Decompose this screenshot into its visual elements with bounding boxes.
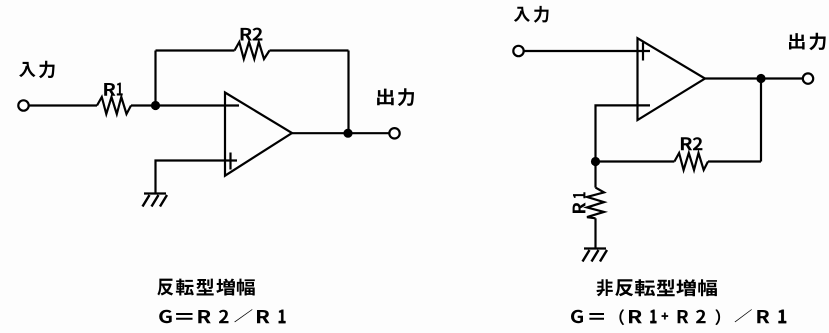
node B (output junction) bbox=[343, 129, 352, 138]
wire: op-amp inverting input stub to corner bbox=[596, 105, 651, 161]
label 入力 (left input) bbox=[19, 61, 54, 79]
input terminal (right, open circle) bbox=[513, 46, 523, 56]
wire: node D down to R2 bbox=[760, 79, 762, 162]
caption 反転型増幅 bbox=[157, 279, 254, 296]
wire: node D to output terminal bbox=[761, 77, 803, 79]
node D (output junction) bbox=[756, 74, 765, 83]
op-amp U2 non-inverting input + mark (vertical dash) bbox=[642, 43, 644, 61]
label 出力 (right output) bbox=[789, 33, 826, 51]
caption 非反転型増幅 bbox=[596, 279, 716, 296]
wire: node C down to R1 bbox=[594, 162, 596, 188]
resistor R1 (right, vertical) bbox=[587, 188, 604, 219]
label R2 bbox=[241, 28, 263, 41]
label R2 (right) bbox=[681, 137, 703, 150]
output terminal (right, open circle) bbox=[803, 73, 813, 83]
output terminal (left, open circle) bbox=[389, 128, 399, 138]
node C (feedback junction) bbox=[591, 157, 600, 166]
resistor R2 (feedback) bbox=[235, 42, 270, 59]
ground symbol (left) bbox=[143, 194, 168, 207]
wire: feedback top, right segment bbox=[270, 49, 349, 51]
node A (inverting input junction) bbox=[151, 101, 160, 110]
wire: op-amp output to node D bbox=[705, 77, 761, 79]
op-amp U1 (left) bbox=[225, 93, 292, 176]
ground symbol (right) bbox=[583, 249, 608, 262]
label R1 bbox=[104, 83, 123, 96]
wire: input terminal to op-amp non-inverting input (+ stub inside) bbox=[525, 50, 651, 52]
wire: R1 to node A bbox=[131, 104, 156, 106]
wire: R2 to output vertical bbox=[708, 160, 761, 162]
label 入力 (right input) bbox=[514, 6, 549, 23]
wire: node B to output terminal bbox=[348, 132, 389, 134]
wire: non-inverting input to ground corner bbox=[156, 161, 238, 194]
wire: R1 to ground bbox=[594, 218, 596, 248]
wire: op-amp output to node B bbox=[292, 132, 348, 134]
wire: node A to op-amp inverting input (− stub inside) bbox=[156, 104, 240, 106]
op-amp U2 (right) bbox=[638, 38, 706, 120]
wire: feedback top, left segment bbox=[156, 49, 235, 51]
wire: input terminal to R1 bbox=[30, 104, 98, 106]
wire: node C to R2 bbox=[596, 160, 675, 162]
resistor R2 (right) bbox=[674, 153, 708, 170]
wire: feedback down to node B bbox=[347, 51, 349, 134]
op-amp U1 non-inverting input + mark (vertical dash) bbox=[229, 153, 231, 170]
resistor R1 bbox=[97, 97, 131, 114]
wire: node A up to feedback bbox=[154, 51, 156, 106]
formula G＝R２／R１ bbox=[159, 309, 285, 323]
label R1 (right, rotated) bbox=[573, 192, 586, 213]
input terminal (left, open circle) bbox=[18, 100, 28, 110]
label 出力 (left output) bbox=[377, 88, 414, 106]
formula G＝（R１+R２）／R１ bbox=[571, 309, 786, 325]
